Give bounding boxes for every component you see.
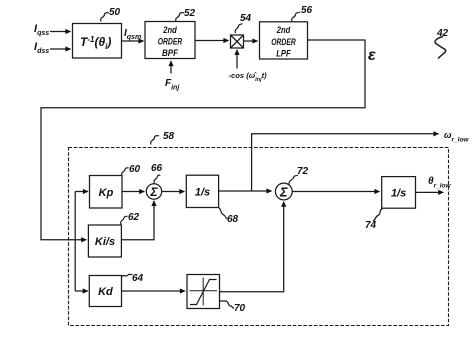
node theta_r_low output label <box>428 176 451 190</box>
svg-text:74: 74 <box>365 220 377 231</box>
wire branch to Kd <box>75 290 88 292</box>
label 72 leader <box>289 166 309 185</box>
block 62 Ki/s integrator gain <box>88 225 121 257</box>
svg-text:BPF: BPF <box>162 48 178 59</box>
label 52 leader <box>176 8 196 22</box>
wire Idss input arrow <box>50 48 71 50</box>
wire BPF to multiplier <box>195 40 229 42</box>
label 54 leader <box>235 13 251 33</box>
svg-text:ωr_low: ωr_low <box>444 130 469 144</box>
label 56 leader <box>292 5 313 22</box>
svg-text:70: 70 <box>234 303 246 314</box>
node epsilon label <box>368 47 376 64</box>
svg-text:66: 66 <box>151 163 163 174</box>
node -cos(w_inj t) carrier input <box>229 50 268 83</box>
block 68 integrator 1/s <box>186 175 218 207</box>
svg-text:ORDER: ORDER <box>158 37 183 48</box>
wire branch to Kp <box>75 191 88 193</box>
label 68 leader <box>219 208 239 225</box>
block 50 inverse transform T^-1(theta_i) <box>73 24 122 59</box>
svg-text:Idss: Idss <box>34 41 49 55</box>
svg-text:62: 62 <box>128 212 140 223</box>
svg-text:2nd: 2nd <box>162 25 176 36</box>
wire limiter to sum 72 <box>220 202 284 292</box>
svg-text:Ki/s: Ki/s <box>95 236 115 248</box>
wire Kd to limiter 70 <box>122 290 186 292</box>
wire Kp to sum 66 <box>122 191 144 193</box>
summer 66 <box>146 184 161 199</box>
svg-text:56: 56 <box>301 5 313 16</box>
multiplier 54 mixer <box>231 35 244 48</box>
svg-text:52: 52 <box>184 8 196 19</box>
block 64 Kd gain <box>89 276 121 307</box>
svg-text:1/s: 1/s <box>195 187 210 199</box>
svg-text:2nd: 2nd <box>276 25 290 36</box>
svg-text:54: 54 <box>240 13 252 24</box>
wire integrator 68 to sum 72 <box>219 190 272 192</box>
label 58 leader <box>151 131 175 145</box>
svg-text:50: 50 <box>109 7 121 18</box>
wire Iqss input arrow <box>50 31 71 33</box>
svg-text:Finj: Finj <box>165 78 180 92</box>
node Idss input label <box>34 41 49 55</box>
svg-text:Kp: Kp <box>99 187 114 199</box>
svg-text:64: 64 <box>132 273 144 284</box>
block 52 2nd order BPF <box>145 22 195 60</box>
wire sum 72 to integrator 74 <box>292 191 379 193</box>
label 62 leader <box>121 212 140 225</box>
svg-text:Iqss: Iqss <box>34 23 49 37</box>
svg-text:60: 60 <box>129 164 141 175</box>
svg-text:ε: ε <box>368 47 376 64</box>
node input branch vertical <box>74 192 76 292</box>
svg-text:Kd: Kd <box>98 286 113 298</box>
wire sum 66 to integrator 68 <box>162 191 185 193</box>
block 74 integrator 1/s <box>382 177 416 209</box>
node omega_r_low output label <box>444 130 469 144</box>
label 50 leader <box>101 7 121 22</box>
dashed observer box 58 <box>69 148 449 326</box>
node Finj injection input <box>165 61 180 92</box>
svg-text:58: 58 <box>163 131 175 142</box>
wire multiplier to LPF <box>244 40 258 42</box>
label 60 leader <box>122 164 141 176</box>
limiter 70 saturation block <box>187 275 220 309</box>
label 42 figure pointer <box>435 28 449 59</box>
svg-text:68: 68 <box>227 214 239 225</box>
svg-text:Iqsm: Iqsm <box>124 28 141 41</box>
label 64 leader <box>122 273 144 284</box>
svg-text:72: 72 <box>297 166 309 177</box>
svg-text:ORDER: ORDER <box>271 37 296 48</box>
svg-text:LPF: LPF <box>276 49 291 60</box>
block 60 Kp gain <box>90 176 123 209</box>
label 70 leader <box>220 301 246 314</box>
svg-text:1/s: 1/s <box>391 188 406 200</box>
wire Ki/s to sum 66 <box>121 201 154 240</box>
svg-text:T-1(θi): T-1(θi) <box>80 35 111 51</box>
wire omega output branch <box>252 134 439 191</box>
svg-text:Σ: Σ <box>279 186 288 200</box>
node Iqsm label <box>124 28 141 41</box>
svg-text:Σ: Σ <box>149 185 158 199</box>
wire theta output <box>416 191 444 193</box>
wire T to BPF <box>122 40 144 42</box>
wire epsilon feedback LPF to PI input <box>41 40 365 240</box>
summer 72 <box>275 183 292 200</box>
node Iqss input label <box>34 23 49 37</box>
label 74 leader <box>365 209 383 232</box>
label 66 leader <box>151 163 163 183</box>
svg-text:-cos (ω̂injt): -cos (ω̂injt) <box>229 71 268 83</box>
block 56 2nd order LPF <box>260 22 308 60</box>
